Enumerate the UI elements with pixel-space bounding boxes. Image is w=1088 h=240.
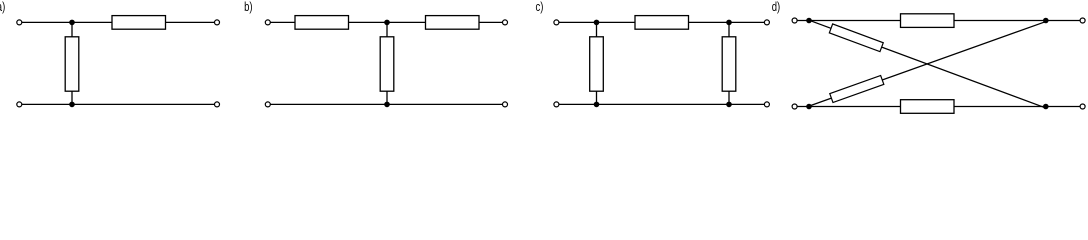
node d bottom-left junction — [806, 104, 812, 110]
wire shunt a — [71, 22, 73, 104]
svg-text:d): d) — [772, 1, 781, 15]
wire shunt c left — [596, 22, 598, 104]
terminal d bottom-right — [1080, 104, 1085, 109]
svg-text:a): a) — [0, 1, 5, 15]
resistor a shunt (vertical) — [65, 37, 79, 91]
terminal a top-left — [17, 20, 22, 25]
wire shunt c right — [728, 22, 730, 104]
terminal c top-right — [764, 20, 769, 25]
wire bottom rail c — [559, 103, 765, 105]
node a top junction — [69, 20, 75, 26]
resistor c shunt right (vertical) — [722, 37, 736, 91]
wire top rail d — [797, 20, 1080, 22]
wire diagonal d (top-left to bottom-right) — [809, 20, 1045, 108]
node b top junction — [384, 20, 390, 26]
terminal d top-left — [792, 18, 797, 23]
resistor d diagonal lower (tilted) — [830, 75, 884, 102]
terminal c top-left — [554, 20, 559, 25]
terminal b bottom-right — [503, 102, 508, 107]
wire bottom rail b — [270, 103, 502, 105]
terminal b bottom-left — [265, 102, 270, 107]
terminal a top-right — [215, 20, 220, 25]
terminal d top-right — [1080, 18, 1085, 23]
resistor c series (horizontal) — [635, 16, 689, 30]
terminal a bottom-left — [17, 102, 22, 107]
resistor d series bottom (horizontal) — [901, 100, 955, 114]
node d top-right junction — [1043, 18, 1049, 24]
terminal b top-right — [503, 20, 508, 25]
terminal c bottom-left — [554, 102, 559, 107]
resistor a series (horizontal) — [112, 16, 166, 30]
terminal c bottom-right — [764, 102, 769, 107]
terminal b top-left — [265, 20, 270, 25]
resistor b series 1 (horizontal) — [295, 16, 349, 30]
resistor d diagonal upper (tilted) — [829, 24, 883, 52]
wire bottom rail a — [22, 103, 215, 105]
resistor b series 2 (horizontal) — [426, 16, 480, 30]
terminal d bottom-left — [792, 104, 797, 109]
wire shunt b — [386, 22, 388, 104]
wire top rail b — [270, 21, 502, 23]
wire top rail a — [22, 21, 215, 23]
node c top-right junction — [726, 20, 732, 26]
wire diagonal d (bottom-left to top-right) — [809, 22, 1046, 106]
svg-text:c): c) — [536, 1, 544, 15]
resistor c shunt left (vertical) — [590, 37, 604, 91]
node d bottom-right junction — [1043, 104, 1049, 110]
resistor b shunt (vertical) — [380, 37, 394, 91]
node a bottom junction — [69, 102, 75, 108]
wire bottom rail d — [797, 106, 1080, 108]
node c bottom-right junction — [726, 102, 732, 108]
node c top-left junction — [594, 20, 600, 26]
terminal a bottom-right — [215, 102, 220, 107]
node b bottom junction — [384, 102, 390, 108]
svg-text:b): b) — [244, 1, 253, 15]
node c bottom-left junction — [594, 102, 600, 108]
node d top-left junction — [806, 18, 812, 24]
wire top rail c — [559, 21, 765, 23]
resistor d series top (horizontal) — [901, 14, 955, 28]
